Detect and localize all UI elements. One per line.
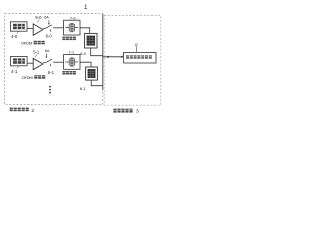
source box (bottom row) xyxy=(11,56,28,65)
svg-text:4-0: 4-0 xyxy=(11,34,18,39)
caption OFDM demodulator (bottom row) xyxy=(22,75,46,80)
svg-text:6-0: 6-0 xyxy=(46,34,53,39)
svg-text:6A: 6A xyxy=(44,15,49,19)
caption digital section label 3 xyxy=(113,109,139,115)
amplifier A0 (top row) xyxy=(33,24,43,35)
analog section dashed box 2 xyxy=(5,14,103,105)
svg-text:OFDM: OFDM xyxy=(21,40,32,45)
node 6A control arrow (bottom row) xyxy=(45,49,50,58)
svg-text:6-1: 6-1 xyxy=(48,70,55,75)
caption matching circuit (top row) xyxy=(62,37,76,41)
svg-text:6A: 6A xyxy=(45,49,50,53)
svg-text:5-0: 5-0 xyxy=(35,15,42,20)
source box (top row) xyxy=(11,22,28,31)
wire to signal processing box xyxy=(103,56,124,58)
wire xyxy=(27,28,33,30)
svg-text:3: 3 xyxy=(136,109,139,115)
caption analog section label 2 xyxy=(10,108,35,114)
wire xyxy=(43,27,46,29)
matching circuit box (bottom row) xyxy=(64,55,81,70)
ellipsis dots (more channels) xyxy=(49,86,51,94)
svg-text:OFDM: OFDM xyxy=(22,75,33,80)
wire xyxy=(27,62,33,64)
wire xyxy=(80,28,90,34)
wire bus (vertical, between sections) xyxy=(102,14,104,90)
signal processing box U9 xyxy=(124,52,156,63)
wire xyxy=(43,62,46,64)
transducer T1 (bottom row) xyxy=(86,67,98,80)
switch SW0 (top row) xyxy=(46,25,64,32)
svg-text:8-0: 8-0 xyxy=(80,51,87,56)
svg-text:2: 2 xyxy=(31,108,34,114)
matching circuit box (top row) xyxy=(64,20,81,35)
crystal/transducer symbol xyxy=(65,27,69,29)
node 5-0 xyxy=(35,15,42,23)
node 5-1 xyxy=(33,49,40,57)
svg-text:1: 1 xyxy=(84,4,88,11)
switch SW1 (bottom row) xyxy=(46,59,64,66)
node 4-0 xyxy=(11,31,19,39)
digital section dashed box 3 xyxy=(104,15,161,105)
wire xyxy=(91,80,103,86)
svg-text:9: 9 xyxy=(135,42,138,47)
wire xyxy=(80,62,91,67)
svg-text:4-1: 4-1 xyxy=(11,69,18,74)
amplifier A1 (bottom row) xyxy=(33,58,43,69)
caption matching circuit (bottom row) xyxy=(62,71,76,75)
caption OFDM modulator (top row) xyxy=(21,40,45,45)
wire xyxy=(91,48,103,56)
transducer T0 (top row) xyxy=(85,33,97,48)
svg-text:5-1: 5-1 xyxy=(33,49,40,54)
svg-text:7-0: 7-0 xyxy=(70,17,76,21)
node 9 xyxy=(135,42,138,52)
node 4-1 xyxy=(11,66,19,74)
node 6A control arrow (top row) xyxy=(44,15,50,25)
svg-text:8-1: 8-1 xyxy=(80,86,87,91)
svg-text:7-1: 7-1 xyxy=(69,50,75,54)
